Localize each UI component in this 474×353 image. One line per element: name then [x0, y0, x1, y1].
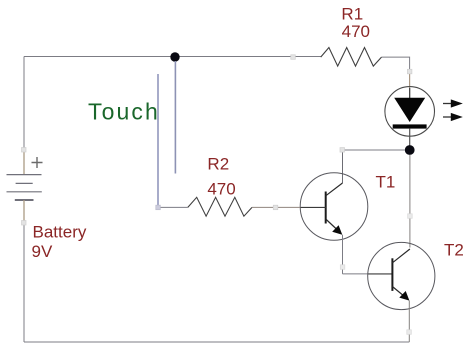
wire: T2 emitter down to bottom rail: [408, 301, 410, 342]
svg-text:R1: R1: [341, 5, 363, 24]
wire: T1 emitter to T2 base: [343, 273, 368, 275]
wire: bottom rail: [24, 341, 409, 343]
wire: R2 to T1 base: [252, 206, 300, 208]
pin marker left of junction: [340, 148, 345, 153]
wire: top rail left (battery to junction): [24, 56, 175, 58]
battery B1 plates: [7, 175, 42, 200]
wire: corner down to LED (tan): [409, 72, 411, 89]
pin marker T1 emitter wire: [340, 265, 345, 270]
svg-text:T1: T1: [376, 172, 396, 191]
LED D1 circle: [385, 87, 435, 137]
wire: junction down to T2 collector: [409, 155, 411, 248]
resistor R2 zigzag: [188, 197, 252, 216]
transistor T2 emitter arrowhead: [399, 291, 409, 301]
wire: junction to T1 collector (horizontal): [342, 149, 405, 151]
transistor T2 base lead: [368, 273, 393, 275]
transistor T1 circle: [300, 173, 368, 241]
pin marker touch plate corner: [156, 205, 161, 210]
LED D1 anode lead: [409, 88, 411, 98]
transistor T2 circle: [368, 242, 435, 309]
svg-text:9V: 9V: [32, 242, 53, 261]
LED D1 cathode bar: [393, 124, 427, 128]
LED D1 triangle: [394, 98, 425, 122]
transistor T1 emitter arrowhead: [332, 225, 342, 235]
node: junction dot top: [170, 52, 179, 61]
wire: left vertical from top rail to battery +: [23, 57, 25, 151]
wire: T1 emitter down: [342, 235, 344, 274]
pin marker R1 left: [291, 55, 296, 60]
svg-text:R2: R2: [207, 154, 229, 173]
wire: top rail right (junction to R1): [175, 56, 321, 58]
svg-text:Battery: Battery: [33, 223, 87, 242]
wire: R1 to top-right corner and down: [382, 57, 410, 71]
battery B1 plus sign: [32, 157, 43, 168]
pin marker above LED: [407, 69, 412, 74]
pin marker T2 collector wire: [408, 214, 413, 219]
svg-text:470: 470: [207, 180, 235, 199]
transistor T1 emitter diagonal: [326, 219, 338, 230]
wire: battery bottom stub (tan): [23, 200, 25, 223]
LED arrow 1: [443, 99, 463, 107]
transistor T1 base lead: [300, 206, 325, 208]
LED D1 cathode lead: [409, 129, 411, 146]
pin marker battery bottom: [22, 221, 27, 226]
pin marker battery top: [22, 148, 27, 153]
wire: left vertical down to bottom rail: [23, 223, 25, 342]
transistor T2 emitter diagonal: [392, 287, 404, 297]
svg-text:Touch: Touch: [88, 99, 160, 125]
resistor R1 zigzag: [321, 48, 382, 67]
transistor T1 collector diagonal: [326, 183, 343, 196]
node: junction dot below LED: [405, 145, 415, 155]
touch plate left: [157, 74, 159, 207]
pin marker bottom right: [407, 330, 412, 335]
touch plate right: [174, 61, 176, 174]
wire: T1 collector vertical: [342, 150, 344, 183]
wire: battery top stub (tan): [23, 150, 25, 175]
svg-text:T2: T2: [444, 240, 464, 259]
pin marker R2 right: [273, 205, 278, 210]
wire: touch plate to R2: [158, 206, 188, 208]
transistor T2 base bar: [391, 258, 393, 291]
transistor T2 collector diagonal: [392, 249, 410, 263]
transistor T1 base bar: [325, 192, 327, 224]
svg-text:470: 470: [342, 22, 370, 41]
LED arrow 2: [443, 113, 463, 121]
